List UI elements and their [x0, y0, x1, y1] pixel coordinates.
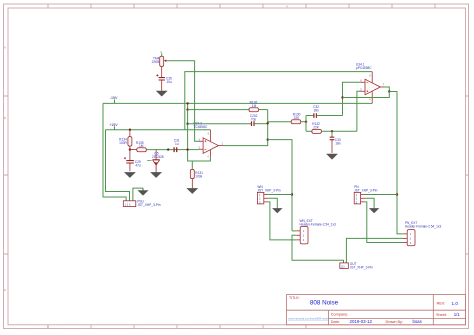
wire C32 to U34.1 -input — [343, 82, 361, 115]
junction R134 top — [129, 129, 131, 131]
junction -15V rail — [186, 102, 188, 104]
junction C33 top — [331, 130, 333, 132]
svg-text:JST_XHP_3-Pin: JST_XHP_3-Pin — [257, 188, 280, 192]
svg-text:8: 8 — [208, 133, 210, 136]
svg-text:1.0: 1.0 — [452, 301, 459, 306]
top border ticks — [48, 4, 435, 8]
svg-text:A: A — [4, 46, 6, 50]
svg-text:123: 123 — [341, 266, 346, 269]
svg-text:4: 4 — [369, 99, 371, 102]
capacitor C32 39n — [306, 105, 343, 118]
junction R130 right node — [305, 121, 307, 123]
wire TM4 bottom to C35 — [161, 67, 163, 78]
svg-text:Date:: Date: — [331, 320, 340, 324]
svg-text:TC4558C: TC4558C — [194, 125, 208, 129]
svg-text:REV:: REV: — [437, 302, 446, 306]
junction C202 right — [267, 122, 269, 124]
svg-text:22K: 22K — [294, 116, 301, 120]
svg-text:100R: 100R — [119, 141, 127, 145]
svg-text:1 2 3: 1 2 3 — [125, 202, 131, 206]
svg-text:2SC828: 2SC828 — [152, 155, 164, 159]
connector OUT JST_XHP_3-Pin — [340, 262, 373, 270]
ground (R131) — [188, 189, 197, 194]
wire output node to WN vertical — [268, 140, 292, 231]
svg-text:-15V: -15V — [110, 96, 118, 100]
wire U34.1 output — [384, 87, 389, 92]
svg-text:10u: 10u — [167, 80, 173, 84]
capacitor C29 47u — [124, 150, 141, 172]
wire feedback right vertical / output node — [267, 110, 269, 140]
resistor R130 22K — [268, 113, 306, 124]
svg-text:Sheet:: Sheet: — [436, 313, 447, 317]
wire +15V rail — [106, 129, 211, 131]
ground (PN) — [370, 209, 378, 213]
wire +15V top distribution to U34.1 V+ — [185, 72, 372, 130]
wire PN pin3 to PN_EXT pin3 — [365, 202, 403, 243]
svg-text:JST_XHP_3-Pin: JST_XHP_3-Pin — [354, 188, 377, 192]
wire WN pin1 to node — [268, 194, 292, 196]
svg-text:D: D — [4, 288, 7, 292]
svg-text:808 Noise: 808 Noise — [310, 299, 339, 306]
resistor R135 1M — [130, 141, 146, 152]
wire feedback left vertical — [188, 103, 211, 161]
wire U34.2 output — [224, 140, 268, 146]
wire WN pin2 to ground — [268, 198, 277, 208]
wire PN_EXT pin2 to OUT — [346, 238, 403, 263]
junction R134 bottom node — [129, 148, 131, 150]
connector PSU JST_XHP_3-Pin — [123, 199, 160, 207]
resistor R136 1M feedback — [188, 100, 268, 111]
junction -input node — [186, 148, 188, 150]
svg-text:100k: 100k — [195, 175, 202, 179]
bottom border ticks — [48, 325, 306, 329]
connector PN JST_XHP_3-Pin — [354, 185, 377, 204]
capacitor C35 10u — [156, 74, 172, 91]
ground (PSU) — [139, 188, 148, 195]
wire WN vertical into WN_EXT pin1 — [292, 230, 296, 232]
transistor Q5 2SC828 — [147, 150, 164, 173]
capacitor C202 70p feedback — [188, 114, 268, 126]
svg-text:1/1: 1/1 — [454, 312, 461, 317]
ground (WN) — [273, 209, 281, 213]
capacitor C33 18n — [330, 131, 341, 153]
right border ticks — [466, 96, 469, 254]
svg-text:JST_XHP_3-Pin: JST_XHP_3-Pin — [350, 265, 373, 269]
svg-text:4: 4 — [207, 156, 209, 159]
op-amp U34.2 TC4558C — [194, 122, 224, 159]
junction R136 line — [186, 108, 188, 110]
svg-text:bsas: bsas — [413, 319, 423, 324]
svg-text:1M: 1M — [139, 144, 144, 148]
svg-text:JST_XHP_3-Pin: JST_XHP_3-Pin — [137, 203, 160, 207]
connector WN_EXT Header-Female-2.54_1x3 — [296, 219, 336, 244]
svg-text:Header-Female-2.54_1x3: Header-Female-2.54_1x3 — [405, 225, 442, 229]
resistor R131 100k — [190, 161, 203, 189]
wire -15V to PSU pin1 — [103, 103, 126, 200]
wire TM4 wiper to U34.2 +input — [167, 61, 199, 142]
connector WN JST_XHP_3-Pin — [257, 185, 280, 204]
svg-text:70p: 70p — [251, 118, 257, 122]
wire U34.1 feedback — [343, 92, 390, 98]
wire PN pin1 to output vertical — [365, 194, 397, 196]
svg-text:1M: 1M — [252, 104, 257, 108]
ground (C29) — [125, 173, 134, 178]
junction U34.1 output node — [388, 90, 390, 92]
svg-text:B: B — [4, 116, 6, 120]
wire PSU pin3 to ground — [133, 188, 143, 201]
svg-text:8: 8 — [369, 74, 371, 77]
wire WN pin3 to WN_EXT pin3 — [268, 202, 296, 240]
svg-text:www.easyeda.com/bsas/808-noise: www.easyeda.com/bsas/808-noise — [288, 317, 328, 321]
net +15V flag — [109, 123, 118, 130]
svg-text:Header-Female-2.54_1x3: Header-Female-2.54_1x3 — [300, 222, 337, 226]
op-amp U34.1 uPC4558C — [356, 62, 385, 103]
ground (C33) — [327, 154, 336, 159]
svg-text:1u: 1u — [175, 142, 179, 146]
wire R130 node vertical — [305, 116, 307, 132]
resistor R134 100R — [119, 130, 132, 150]
wire PN pin2 to ground — [365, 198, 374, 208]
svg-text:22KB: 22KB — [152, 60, 160, 64]
svg-text:47u: 47u — [135, 164, 141, 168]
wire R135 to C31 / U34.2 — [146, 149, 199, 151]
wire R132 to U34.1 +input — [357, 91, 361, 131]
left border ticks — [4, 96, 9, 254]
ground (C35) — [157, 91, 166, 96]
wire WN_EXT pin2 to OUT — [292, 235, 344, 263]
junction feedback U34.1 — [341, 96, 343, 98]
wire output to PN chain — [389, 92, 403, 234]
junction output node — [267, 138, 269, 140]
net -15V flag — [110, 96, 118, 103]
svg-text:+15V: +15V — [109, 123, 118, 127]
frame zone labels — [4, 4, 288, 329]
ground (Q5) — [151, 173, 160, 178]
svg-text:Drawn By:: Drawn By: — [386, 320, 404, 324]
titleblock — [287, 295, 466, 325]
svg-text:2019-03-12: 2019-03-12 — [350, 319, 373, 324]
trimmer TM4 22KB — [152, 50, 167, 67]
junction C31 left — [167, 148, 169, 150]
capacitor C31 1u — [174, 138, 180, 152]
connector PN_EXT Header-Female-2.54_1x3 — [403, 221, 441, 246]
junction C202 line — [186, 123, 188, 125]
svg-text:3: 3 — [160, 50, 162, 54]
svg-text:7: 7 — [383, 84, 385, 87]
svg-text:18n: 18n — [335, 142, 341, 146]
wire +15V to PSU pin2 — [106, 130, 130, 201]
wire -15V rail — [103, 102, 372, 104]
svg-text:TITLE:: TITLE: — [289, 296, 300, 300]
junction PN pin1 — [396, 193, 398, 195]
svg-text:1: 1 — [222, 142, 224, 145]
svg-text:22K: 22K — [313, 126, 320, 130]
svg-text:Company:: Company: — [331, 313, 348, 317]
resistor R132 22K — [306, 122, 357, 133]
svg-text:39n: 39n — [314, 108, 320, 112]
svg-text:μPC4558C: μPC4558C — [356, 66, 372, 70]
junction WN pin1 — [291, 193, 293, 195]
